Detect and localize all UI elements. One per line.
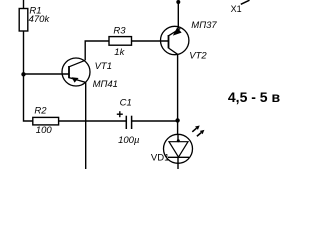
wire leader line to connector X1 [241, 0, 250, 4]
svg-text:C1: C1 [120, 97, 132, 108]
wire left rail from R1 down to R2 corner [24, 31, 33, 121]
svg-text:МП41: МП41 [93, 79, 118, 90]
svg-text:100µ: 100µ [118, 135, 140, 146]
capacitor C1 [126, 116, 131, 129]
svg-text:100: 100 [36, 125, 53, 136]
resistor R2 [33, 117, 59, 125]
wire top lead into R1 [23, 0, 25, 9]
light emission arrow 1 of VD1 [192, 126, 199, 132]
label plus sign of C1 [117, 111, 123, 117]
svg-text:470k: 470k [29, 14, 51, 25]
wire base of VT1 [24, 73, 70, 75]
svg-text:VT2: VT2 [189, 51, 207, 62]
svg-text:VT1: VT1 [95, 61, 112, 72]
svg-text:4,5 - 5 в: 4,5 - 5 в [228, 89, 281, 105]
wire VT2 top lead to supply [177, 2, 179, 28]
wire VT1 emitter down to bottom edge [85, 82, 87, 169]
svg-text:X1: X1 [231, 4, 242, 14]
node supply dot [176, 0, 180, 4]
resistor R1 [19, 9, 28, 32]
node junction dot above VD1 [175, 118, 179, 122]
light emission arrow 2 of VD1 [197, 130, 205, 136]
wire C1 to VT2 emitter rail [132, 120, 178, 122]
transistor Q1 VT1 [62, 58, 90, 86]
svg-text:VD1: VD1 [151, 152, 169, 163]
LED VD1 [164, 134, 193, 169]
wire VT1 collector up to R3 level [85, 41, 109, 60]
svg-text:1k: 1k [114, 47, 125, 58]
transistor Q2 VT2 [161, 26, 189, 54]
svg-text:R2: R2 [34, 105, 47, 116]
wire R3 to VT2 base [132, 40, 169, 42]
svg-text:R3: R3 [113, 26, 126, 37]
svg-text:МП37: МП37 [191, 20, 217, 31]
wire R2 to C1 [59, 120, 127, 122]
wire VT2 bottom lead down to VD1 [177, 54, 179, 134]
node junction dot on left rail [21, 72, 25, 76]
resistor R3 [109, 37, 132, 46]
